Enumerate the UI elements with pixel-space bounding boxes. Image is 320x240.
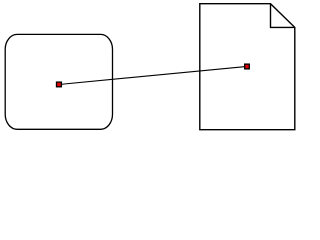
wire connector [59,66,247,84]
rounded box [5,34,112,129]
document (page with folded corner) [200,4,295,130]
node handle left (red) [57,82,62,87]
node handle right (red) [245,64,250,69]
